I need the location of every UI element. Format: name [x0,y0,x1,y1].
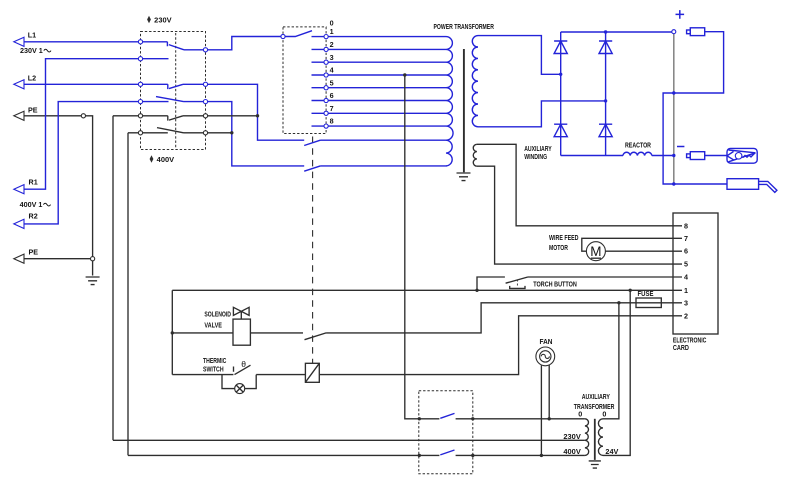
svg-text:PE: PE [28,106,38,115]
svg-text:M: M [590,244,601,259]
svg-text:5: 5 [684,260,688,269]
svg-text:8: 8 [684,221,688,230]
svg-text:MOTOR: MOTOR [549,243,569,252]
svg-text:POWER TRANSFORMER: POWER TRANSFORMER [434,22,495,31]
svg-text:REACTOR: REACTOR [625,141,652,150]
svg-text:2: 2 [684,311,688,320]
svg-text:SOLENOID: SOLENOID [204,310,231,319]
svg-text:400V: 400V [157,155,175,164]
svg-text:8: 8 [330,117,334,126]
svg-text:L1: L1 [28,30,36,39]
svg-text:4: 4 [330,66,334,75]
svg-text:THERMIC: THERMIC [203,356,226,365]
svg-text:R1: R1 [29,177,38,186]
svg-text:WIRE FEED: WIRE FEED [549,233,579,242]
svg-text:L2: L2 [28,74,36,83]
svg-text:1: 1 [330,27,334,36]
svg-text:7: 7 [330,104,334,113]
svg-text:400V 1: 400V 1 [20,200,43,209]
svg-text:VALVE: VALVE [204,321,222,330]
svg-text:1: 1 [684,286,688,295]
svg-text:FAN: FAN [540,337,553,346]
svg-text:θ: θ [241,359,246,369]
svg-text:7: 7 [684,234,688,243]
svg-text:CARD: CARD [673,343,689,352]
svg-text:0: 0 [602,410,606,419]
svg-text:SWITCH: SWITCH [203,365,224,374]
svg-text:PE: PE [29,248,39,257]
svg-text:FUSE: FUSE [638,289,654,298]
svg-text:R2: R2 [29,212,38,221]
svg-text:24V: 24V [605,447,618,456]
svg-text:400V: 400V [563,447,581,456]
svg-text:6: 6 [330,91,334,100]
svg-text:AUXILIARY: AUXILIARY [582,392,610,401]
svg-text:0: 0 [578,410,582,419]
svg-text:230V: 230V [154,16,172,25]
svg-text:230V: 230V [563,432,581,441]
svg-text:2: 2 [330,40,334,49]
svg-text:TORCH BUTTON: TORCH BUTTON [533,280,577,289]
svg-text:WINDING: WINDING [524,152,547,161]
svg-text:3: 3 [330,53,334,62]
svg-text:3: 3 [684,298,688,307]
svg-text:4: 4 [684,273,688,282]
svg-text:230V 1: 230V 1 [20,46,43,55]
svg-text:5: 5 [330,78,334,87]
svg-text:6: 6 [684,247,688,256]
